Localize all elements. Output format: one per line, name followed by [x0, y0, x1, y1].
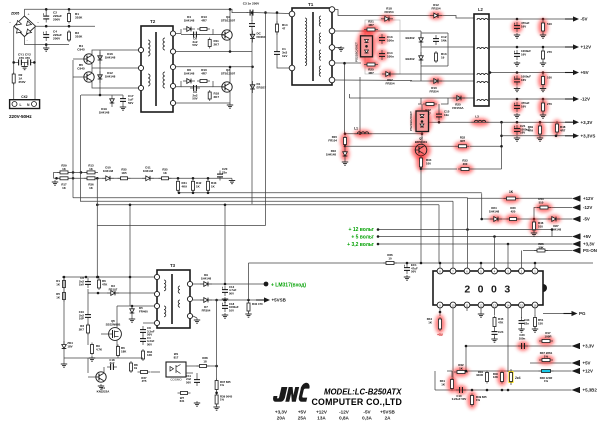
- resistor R6c 18K: [117, 345, 120, 358]
- label +5V lab: [437, 333, 444, 337]
- svg-text:~: ~: [9, 21, 11, 25]
- ground: [518, 327, 524, 332]
- label C2: [53, 11, 62, 22]
- diode D3 FR107: [107, 291, 119, 296]
- wire snubber feed: [344, 63, 346, 134]
- wire r14-c1: [276, 31, 278, 48]
- diode R07 FR254: [381, 70, 395, 78]
- svg-text:+12V: +12V: [316, 410, 328, 415]
- node orr +12V: [542, 46, 545, 49]
- wire Q4 emitter: [92, 64, 141, 68]
- svg-text:1%: 1%: [544, 379, 549, 383]
- capacitor C13 100n: [377, 33, 388, 45]
- wire pin6 mid: [467, 197, 469, 200]
- transistor Q3 STB13007: [222, 82, 232, 92]
- svg-text:KN2222A: KN2222A: [97, 389, 111, 393]
- node o33b: [555, 135, 558, 138]
- svg-text:510: 510: [539, 200, 544, 204]
- label Q4 KN2222A: [97, 386, 111, 393]
- wire sb row2: [54, 177, 233, 179]
- label C21: [520, 124, 530, 135]
- wire r33 right: [472, 168, 502, 170]
- resistor R47 2261: [538, 355, 555, 365]
- wire rail B1b: [251, 29, 253, 204]
- label R17 100R: [545, 331, 553, 338]
- label R43 510: [538, 197, 544, 204]
- capacitor C28 1000uF 16V: [512, 75, 523, 87]
- wire pin3 up: [507, 244, 509, 268]
- wire fb line3: [80, 200, 453, 202]
- ground: [338, 46, 344, 51]
- ground: [194, 318, 200, 323]
- label R41 4K9: [182, 181, 188, 188]
- label C13 4.7uF 50V: [229, 285, 237, 295]
- capacitor C10 0.22uF: [455, 385, 467, 395]
- capacitor C17 1uF 50V: [120, 95, 126, 105]
- wire q7 up: [421, 132, 423, 145]
- svg-text:+5VSB: +5VSB: [380, 410, 395, 415]
- node fbj c: [96, 204, 99, 207]
- wire out -12V: [489, 98, 565, 100]
- svg-text:1K5: 1K5: [121, 171, 127, 175]
- ground: [514, 33, 520, 38]
- svg-text:+3,3V: +3,3V: [581, 120, 593, 125]
- svg-text:510: 510: [547, 22, 552, 26]
- resistor R40b 470: [247, 301, 250, 313]
- label C12 1Nk: [441, 35, 447, 42]
- ground: [514, 61, 520, 66]
- svg-text:FR460: FR460: [139, 309, 148, 313]
- resistor R34 100: [416, 154, 426, 172]
- node cy l: [12, 61, 15, 64]
- svg-text:4T5: 4T5: [142, 379, 147, 383]
- svg-text:T1: T1: [308, 2, 314, 7]
- capacitor C15 10n: [434, 110, 445, 122]
- transformer T1: [289, 2, 335, 85]
- svg-text:CX2: CX2: [21, 95, 27, 99]
- svg-text:16V: 16V: [521, 104, 526, 108]
- svg-text:FR254: FR254: [385, 81, 394, 85]
- node cy r: [33, 61, 36, 64]
- ground: [532, 327, 538, 332]
- svg-text:0,8A: 0,8A: [339, 415, 349, 420]
- wire pin6 up: [467, 198, 469, 268]
- label W7 631: [180, 396, 185, 403]
- svg-text:FR154: FR154: [431, 6, 440, 10]
- ground: [478, 312, 484, 317]
- svg-text:100R: 100R: [545, 334, 553, 338]
- svg-text:20A: 20A: [277, 415, 286, 420]
- svg-text:2K7: 2K7: [79, 327, 85, 331]
- resistor R39 5645 1%: [215, 393, 218, 406]
- label + 12 вольт: [349, 227, 375, 233]
- inductor L1: [354, 130, 372, 138]
- svg-text:-12V: -12V: [583, 205, 592, 210]
- diode R12 FR154: [429, 11, 443, 19]
- diode D7 FR304: [200, 298, 212, 303]
- node j3: [45, 25, 48, 28]
- node jq7b: [420, 262, 423, 265]
- resistor R2 fusible 1A: [12, 72, 15, 85]
- inductor L2: [474, 7, 489, 106]
- resistor R8 19: [130, 361, 133, 373]
- svg-text:C3 1n 250V: C3 1n 250V: [243, 2, 260, 6]
- svg-text:+5V: +5V: [298, 410, 307, 415]
- node j1: [45, 8, 48, 11]
- svg-text:10n: 10n: [444, 113, 449, 117]
- resistor R45 47K: [493, 316, 496, 329]
- svg-text:1%: 1%: [220, 383, 225, 387]
- node j2: [68, 8, 71, 11]
- node oc -5V: [516, 18, 519, 21]
- diode D27 1N4148: [547, 215, 561, 223]
- label D9 1N4148: [201, 273, 212, 280]
- ground: [514, 87, 520, 92]
- svg-text:+5V: +5V: [583, 361, 591, 366]
- resistor R43 510: [536, 203, 553, 213]
- capacitor C3 1n 250V: [247, 10, 257, 16]
- label R13 4R7: [201, 15, 207, 22]
- label R44 1K: [427, 317, 433, 324]
- label R19 910R: [476, 370, 483, 377]
- label R30 420: [510, 206, 516, 213]
- resistor R1 310K: [68, 12, 71, 24]
- wire c1 bottom: [277, 58, 290, 68]
- wire sb row1: [54, 171, 96, 173]
- label R36 10: [387, 253, 393, 260]
- svg-text:50V: 50V: [229, 291, 234, 295]
- node or33: [539, 121, 542, 124]
- ratings table: [275, 410, 396, 421]
- svg-text:100n: 100n: [519, 336, 526, 340]
- svg-text:16V: 16V: [521, 52, 526, 56]
- resistor R5b 1K: [63, 291, 66, 302]
- label D6 1N4148: [184, 68, 195, 75]
- svg-text:16V: 16V: [521, 24, 526, 28]
- wire c11 wire: [196, 373, 198, 376]
- svg-text:4R7: 4R7: [368, 71, 374, 75]
- label R33 400: [462, 159, 468, 166]
- wire ee302 vert: [420, 31, 422, 81]
- wire 5vsb line: [193, 299, 256, 301]
- svg-text:ER1B7: ER1B7: [257, 85, 267, 89]
- terminal +12V: [572, 196, 593, 202]
- resistor R30 420: [505, 214, 521, 224]
- node sbt2: [97, 276, 100, 279]
- svg-text:EE302: EE302: [405, 36, 414, 40]
- svg-text:13K: 13K: [493, 375, 498, 379]
- ground: [52, 180, 58, 185]
- wire r22 right: [441, 98, 448, 104]
- wire fb line5: [97, 225, 265, 227]
- resistor R23 4R7: [363, 60, 380, 70]
- resistor R51 270: [542, 48, 545, 62]
- label R45 47K: [498, 317, 504, 324]
- wire Q4 collector: [92, 50, 141, 54]
- node l1 j1: [344, 132, 347, 135]
- node j4: [68, 25, 71, 28]
- resistor R22 4K7: [422, 99, 439, 109]
- resistor R44 1K: [435, 315, 445, 334]
- svg-text:+3,3V: +3,3V: [583, 344, 595, 349]
- resistor R10 4R7: [197, 80, 210, 83]
- resistor R17 1K: [57, 177, 71, 180]
- node jn1: [465, 345, 468, 348]
- node oc +12V: [516, 46, 519, 49]
- output terminal +12V: [565, 44, 591, 49]
- diode R24 1N4148: [489, 215, 503, 223]
- label Q3 STB13007: [221, 68, 236, 75]
- node jn5: [501, 389, 504, 392]
- node jq7: [420, 167, 423, 170]
- wire pin12 down: [480, 308, 482, 312]
- label R37 665 1%: [220, 380, 231, 387]
- svg-text:13K: 13K: [147, 353, 152, 357]
- pin 13: [492, 302, 498, 308]
- node sbt3: [129, 276, 132, 279]
- svg-text:1N4148: 1N4148: [201, 276, 212, 280]
- label R40 470: [252, 302, 263, 306]
- pin 4: [492, 268, 498, 274]
- wire opto1 drop: [359, 77, 361, 134]
- label L1: [354, 127, 358, 131]
- wire q5 source: [116, 340, 118, 352]
- wire drive feed2: [80, 95, 82, 201]
- svg-text:19: 19: [134, 366, 138, 370]
- resistor R26 30K: [534, 249, 548, 252]
- label R43 1K: [211, 181, 217, 188]
- label R16 1N4148: [326, 149, 337, 156]
- ground: [229, 179, 235, 184]
- label R10 FR254: [429, 86, 438, 93]
- capacitor EC1 47uF: [404, 264, 410, 274]
- wire lm317 line: [193, 283, 266, 285]
- diode D9 1N4148: [200, 282, 212, 287]
- label C14 100n: [387, 51, 394, 58]
- ground: [531, 231, 537, 236]
- resistor R3b 2K7: [87, 323, 90, 335]
- svg-text:ZD05: ZD05: [11, 12, 19, 16]
- label Q2 STB13007: [221, 15, 236, 22]
- node l1 j3: [421, 132, 424, 135]
- diode D16 1N4148: [98, 52, 103, 64]
- label C19 470uF 16V: [521, 101, 530, 108]
- wire 33 sense line: [466, 345, 572, 347]
- svg-text:100: 100: [547, 76, 552, 80]
- label R39 5645 1%: [220, 395, 233, 402]
- wire fb left vert: [96, 178, 98, 277]
- wire out +3,3VS: [502, 135, 566, 137]
- resistor R40 13K: [497, 368, 507, 386]
- capacitor C13b 4.7uF: [222, 286, 228, 296]
- label C4: [53, 30, 62, 41]
- wire pin7 up: [452, 201, 454, 268]
- node g33b: [507, 243, 510, 246]
- svg-text:C24: C24: [498, 330, 504, 334]
- svg-text:1%: 1%: [220, 398, 225, 402]
- wire to L2 +12: [448, 46, 474, 48]
- node p3 j: [251, 66, 254, 69]
- AC connector CX2: [10, 100, 40, 109]
- ground: [540, 33, 546, 38]
- svg-text:310K: 310K: [75, 35, 83, 39]
- svg-text:50V: 50V: [186, 380, 191, 384]
- node p8d: [439, 262, 442, 265]
- wire Q3 emitter down: [175, 92, 230, 103]
- label R35 1K5: [121, 168, 127, 175]
- ground: [222, 297, 228, 302]
- bridge rectifier ZD05: [9, 13, 39, 43]
- svg-text:25A: 25A: [298, 415, 307, 420]
- pin 6: [464, 268, 470, 274]
- resistor R27 4T5: [138, 371, 151, 374]
- wire pin10 down: [452, 308, 454, 379]
- wire net a: [447, 370, 452, 372]
- svg-text:C945: C945: [77, 48, 85, 52]
- wire sec rail low: [335, 79, 412, 82]
- svg-text:47K: 47K: [102, 282, 108, 286]
- node sb j2: [72, 177, 75, 180]
- label + 3,2 вольт: [347, 242, 374, 248]
- wire T1 ct gnd: [335, 47, 341, 49]
- capacitor C11 2n2 50V: [194, 376, 200, 386]
- node jn4: [486, 389, 489, 392]
- wire out +3.3V: [429, 121, 566, 123]
- wire top DC rail: [24, 9, 248, 12]
- svg-text:FR107: FR107: [109, 287, 118, 291]
- svg-text:+3,3V: +3,3V: [583, 242, 595, 247]
- node sb j10: [207, 192, 210, 195]
- wire pin8 up: [439, 263, 441, 268]
- ground: [514, 136, 520, 141]
- label C13 100n: [387, 35, 394, 42]
- capacitor CY1 470: [15, 59, 25, 65]
- svg-text:10P: 10P: [79, 317, 84, 321]
- wire mid AC rail: [36, 25, 95, 27]
- svg-text:+3,3V: +3,3V: [275, 410, 288, 415]
- label D1 ER1B7: [257, 82, 267, 89]
- node v216 j: [215, 299, 218, 302]
- label R3: [75, 31, 83, 39]
- svg-text:2n2: 2n2: [110, 361, 115, 365]
- svg-text:4K9: 4K9: [182, 184, 188, 188]
- svg-text:310K: 310K: [75, 16, 83, 20]
- svg-text:100n: 100n: [387, 38, 394, 42]
- resistor R15 FR104: [340, 133, 350, 149]
- wire base rail2: [73, 76, 84, 78]
- svg-text:L3: L3: [475, 115, 479, 119]
- wire net b: [451, 371, 453, 377]
- module outline: [365, 20, 400, 74]
- optocoupler U1 817 (COSMO): [166, 362, 186, 382]
- wire out +5V: [489, 72, 565, 74]
- svg-text:47: 47: [282, 26, 286, 30]
- svg-text:1N4148: 1N4148: [103, 169, 114, 173]
- node sb j5: [177, 177, 180, 180]
- label C8 3.3nF 50V: [147, 326, 155, 337]
- pin 8: [437, 268, 443, 274]
- resistor R43b 1K: [207, 179, 210, 193]
- svg-text:~: ~: [37, 21, 39, 25]
- diode R25 FR154A: [452, 94, 466, 102]
- pin 3: [505, 268, 511, 274]
- svg-text:-12V: -12V: [339, 410, 350, 415]
- label Q5 SSS2N60B: [106, 319, 121, 326]
- resistor R61 100: [538, 72, 548, 89]
- label R61 100: [547, 76, 552, 80]
- svg-text:30K: 30K: [538, 245, 544, 249]
- label EE302 b: [405, 57, 414, 61]
- svg-text:50V: 50V: [128, 101, 133, 105]
- resistor R14 47: [276, 21, 279, 35]
- terminal -12V: [572, 205, 592, 211]
- label R1: [75, 12, 83, 20]
- svg-text:250V: 250V: [19, 80, 26, 84]
- node g5b: [493, 235, 496, 238]
- label R40 13K: [493, 372, 499, 379]
- label R25 FR154A: [452, 103, 464, 110]
- label C6 2n2 50V: [192, 37, 197, 48]
- resistor R21 4R7: [363, 25, 380, 35]
- label DC FR460: [257, 32, 266, 39]
- node sbt5: [63, 276, 66, 279]
- svg-text:18K: 18K: [121, 349, 127, 353]
- resistor R fb 1K: [502, 194, 520, 204]
- node g12: [377, 228, 380, 231]
- wire T2p2 wire: [175, 51, 252, 53]
- wire r1 stub: [68, 9, 70, 11]
- wire right AC lead: [34, 26, 36, 100]
- wire T2p3 wire: [175, 66, 253, 68]
- svg-text:1K: 1K: [509, 190, 514, 194]
- node jn2: [465, 370, 468, 373]
- svg-text:FR154: FR154: [384, 10, 393, 14]
- wire fb -5V line: [179, 192, 482, 194]
- capacitor C19 470uF 16V: [512, 101, 523, 113]
- node jn3: [507, 389, 510, 392]
- wire bottom DC rail: [24, 44, 69, 46]
- wire -12V fb: [534, 208, 572, 220]
- ground: [43, 46, 49, 51]
- svg-text:-5V: -5V: [363, 410, 371, 415]
- terminal +5V: [572, 360, 591, 366]
- pin 2: [519, 268, 525, 274]
- svg-text:1Nk: 1Nk: [441, 38, 447, 42]
- wire 12v tap drop: [551, 230, 553, 237]
- pin 16: [532, 302, 538, 308]
- svg-text:2003: 2003: [464, 284, 517, 296]
- wire fb vert 482: [481, 193, 483, 219]
- output terminal +5VSB: [256, 297, 287, 302]
- label + 5 вольт: [351, 235, 374, 241]
- capacitor C9 2n2: [190, 85, 200, 91]
- resistor R41 1K: [447, 375, 457, 393]
- node jd1: [99, 94, 102, 97]
- resistor R35b 1K: [159, 177, 172, 180]
- label R07 FR254: [385, 78, 394, 85]
- wire Q2 collector up: [229, 9, 231, 30]
- label R17 1K: [61, 183, 67, 190]
- label C15 10n: [444, 110, 450, 117]
- svg-text:FR304: FR304: [202, 308, 211, 312]
- svg-text:400: 400: [463, 162, 468, 166]
- label C30 100n: [519, 333, 526, 340]
- wire t3 gnd wire: [193, 316, 197, 318]
- resistor R34b 13K: [142, 349, 145, 361]
- wire q4 up: [103, 367, 105, 372]
- wire base rail: [73, 58, 84, 60]
- ground: [404, 275, 410, 280]
